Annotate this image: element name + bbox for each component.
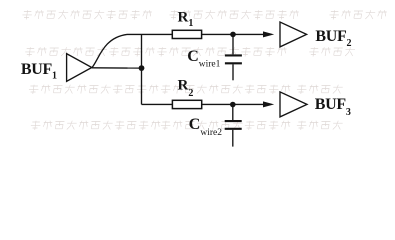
buffer U2 triangle BUF2 [280, 22, 307, 47]
capacitor C_wire1 plates [225, 55, 242, 63]
svg-text:BUF1: BUF1 [21, 61, 57, 81]
svg-text:R1: R1 [178, 10, 194, 30]
buffer U1 triangle BUF1 [67, 54, 92, 82]
wire bottom rail from trunk corner to resistor R2 [142, 103, 173, 105]
svg-text:Cwire2: Cwire2 [189, 116, 222, 138]
svg-text:Cwire1: Cwire1 [187, 48, 220, 69]
watermark rows (decorative) [6, 10, 387, 130]
resistor R1 body [172, 30, 201, 38]
node junction dot top rail [230, 32, 236, 38]
arrowhead into BUF3 [263, 101, 274, 107]
wire vertical trunk joining top and bottom rails [141, 34, 143, 104]
svg-text:R2: R2 [178, 78, 194, 99]
wire top rail from curve to resistor R1 [127, 33, 172, 35]
capacitor C_wire2 plates [225, 121, 242, 129]
wire R2 output to arrow [202, 103, 270, 105]
node junction dot at BUF1 output [139, 65, 145, 71]
svg-text:BUF2: BUF2 [315, 28, 351, 49]
node junction dot bottom rail [230, 102, 236, 108]
resistor R2 body [172, 100, 201, 108]
svg-text:BUF3: BUF3 [315, 96, 351, 118]
arrowhead into BUF2 [263, 31, 274, 37]
capacitor C_wire1 top lead [232, 34, 234, 54]
capacitor C_wire1 bottom lead [232, 64, 234, 80]
buffer U3 triangle BUF3 [280, 92, 307, 117]
capacitor C_wire2 bottom lead [232, 130, 234, 147]
wire R1 output to arrow [202, 33, 270, 35]
wire curved branch from BUF1 apex up to top rail [92, 34, 127, 67]
wire apex of BUF1 to junction [92, 67, 142, 69]
capacitor C_wire2 top lead [232, 105, 234, 121]
